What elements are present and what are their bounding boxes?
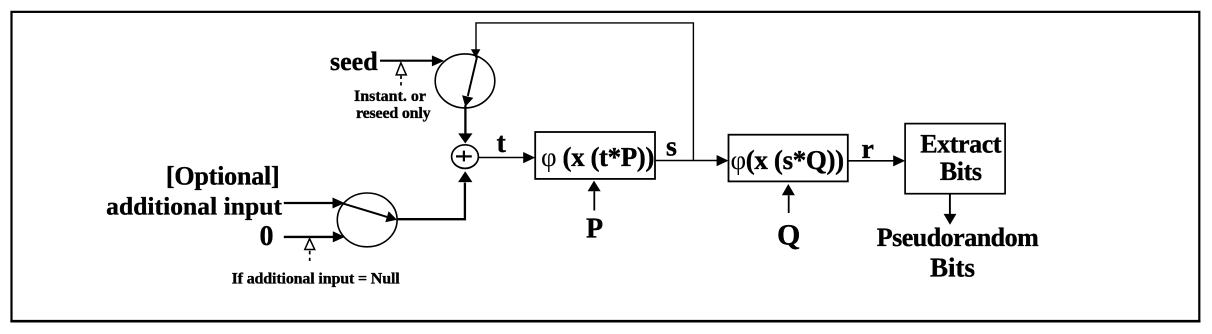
wire 0 to switch S2 bbox=[284, 231, 345, 242]
svg-text:Instant. or: Instant. or bbox=[354, 88, 426, 105]
svg-text:Bits: Bits bbox=[940, 157, 982, 186]
block F1 phi(x(t*P)) bbox=[535, 132, 655, 179]
wire Q into block F2 bbox=[782, 184, 795, 213]
svg-text:s: s bbox=[666, 132, 677, 163]
wire feedback from s-line up and over to switch S1 bbox=[476, 23, 693, 161]
wire switch S1 to adder bbox=[464, 105, 466, 134]
arrowhead into switch S1 top bbox=[471, 49, 481, 58]
wire additional input to switch S2 bbox=[284, 198, 345, 209]
label seed bbox=[330, 47, 378, 76]
svg-text:φ (x (t*P)): φ (x (t*P)) bbox=[541, 142, 654, 172]
wire block F1 to block F2 bbox=[655, 160, 717, 162]
label If additional input = Null bbox=[232, 270, 401, 287]
arrowhead into adder top bbox=[458, 133, 472, 143]
svg-text:0: 0 bbox=[260, 221, 274, 252]
adder (circle plus) bbox=[452, 145, 479, 169]
switch S1 lever diagonal bbox=[462, 56, 477, 107]
svg-text:Pseudorandom: Pseudorandom bbox=[877, 223, 1039, 252]
switch S2 lever diagonal bbox=[342, 203, 397, 222]
label Pseudorandom Bits bbox=[877, 223, 1039, 282]
svg-text:t: t bbox=[497, 128, 507, 159]
wire switch S2 to adder (right then up) bbox=[397, 183, 465, 220]
switch S1 (seed select circle) bbox=[435, 54, 495, 108]
wire seed to switch S1 bbox=[380, 60, 433, 62]
svg-text:Extract: Extract bbox=[920, 129, 1002, 158]
wire Extract Bits to output bbox=[949, 195, 951, 215]
svg-text:seed: seed bbox=[330, 47, 378, 76]
svg-text:P: P bbox=[586, 214, 603, 245]
svg-text:If additional input = Null: If additional input = Null bbox=[232, 270, 401, 287]
svg-text:Bits: Bits bbox=[930, 252, 975, 282]
annotation arrow (dashed, hollow) If additional input = Null bbox=[305, 239, 315, 261]
label r bbox=[862, 134, 874, 165]
label t bbox=[497, 128, 507, 159]
label [Optional] additional input bbox=[106, 162, 282, 221]
arrowhead seed wire bbox=[432, 55, 444, 66]
svg-text:reseed only: reseed only bbox=[356, 105, 431, 122]
switch S2 (additional input select circle) bbox=[337, 193, 397, 247]
svg-text:Q: Q bbox=[777, 219, 800, 252]
arrowhead into block F2 bbox=[717, 155, 729, 166]
arrowhead into Extract Bits bbox=[893, 155, 905, 166]
wire adder to block F1 bbox=[478, 157, 523, 159]
svg-text:additional input: additional input bbox=[106, 192, 282, 221]
label s bbox=[666, 132, 677, 163]
block F2 phi(x(s*Q)) bbox=[729, 135, 848, 182]
arrowhead into block F1 bbox=[523, 152, 535, 163]
svg-text:φ(x (s*Q)): φ(x (s*Q)) bbox=[731, 145, 844, 175]
label 0 bbox=[260, 221, 274, 252]
annotation arrow (dashed, hollow) Instant. or reseed only bbox=[396, 63, 406, 87]
wire block F2 to Extract Bits bbox=[848, 160, 894, 162]
block Extract Bits bbox=[905, 124, 1005, 194]
label Q bbox=[777, 219, 800, 252]
svg-text:[Optional]: [Optional] bbox=[166, 162, 280, 191]
arrowhead output bbox=[944, 214, 957, 225]
label P bbox=[586, 214, 603, 245]
label Instant. or reseed only bbox=[354, 88, 431, 122]
wire P into block F1 bbox=[588, 181, 601, 211]
arrowhead into adder bottom bbox=[458, 171, 472, 182]
